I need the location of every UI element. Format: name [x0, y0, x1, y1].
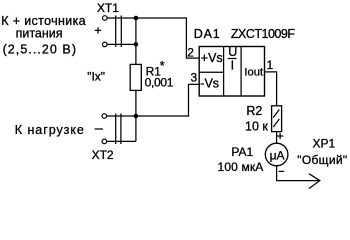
terminal XT2 pin a (circle) — [102, 114, 107, 119]
svg-text:PA1: PA1 — [231, 145, 253, 159]
wire DA1 pin 1 to R2 — [265, 72, 277, 106]
connector XT2 contact bars — [116, 114, 121, 145]
svg-text:μА: μА — [270, 148, 285, 162]
plug XP1 arrow — [309, 174, 320, 189]
connector XT1 contact bars — [116, 16, 122, 48]
wire R2 to PA1 — [276, 132, 278, 144]
wire PA1 to plug XP1 — [277, 166, 319, 181]
wire: top feed to DA1 pin 2 — [136, 18, 199, 58]
svg-text:*: * — [160, 59, 165, 73]
svg-text:U: U — [228, 45, 237, 59]
wire XT1 bottom pin to node — [107, 43, 136, 45]
IC DA1 body — [199, 47, 264, 97]
wire XT2 top pin — [107, 115, 136, 117]
resistor R1 — [130, 64, 141, 90]
terminal XT1 pin b (circle) — [103, 42, 108, 47]
svg-text:питания: питания — [16, 26, 63, 40]
resistor R2 — [272, 106, 282, 132]
wire: node vertical down to R1 — [135, 18, 137, 64]
svg-text:"Общий": "Общий" — [297, 153, 347, 167]
svg-text:1: 1 — [267, 58, 274, 72]
terminal XT2 pin b (circle) — [102, 139, 107, 144]
polarity + at XT1 — [95, 27, 101, 33]
polarity − at XT2 — [95, 128, 103, 130]
svg-text:10 к: 10 к — [245, 120, 268, 134]
svg-text:"Iх": "Iх" — [87, 69, 105, 83]
svg-text:DA1: DA1 — [194, 27, 221, 41]
wire DA1 pin 3 to node — [136, 84, 199, 116]
terminal XT1 pin a (circle) — [103, 16, 108, 21]
svg-text:К нагрузке: К нагрузке — [15, 123, 85, 137]
svg-text:(2,5...20 В): (2,5...20 В) — [3, 42, 77, 56]
svg-text:XT1: XT1 — [97, 1, 119, 15]
svg-text:R2: R2 — [246, 104, 262, 118]
label: К + источника питания (2,5...20 В) — [1, 14, 86, 56]
symbol U/I — [228, 45, 238, 73]
wire XT1 top pin to node — [107, 17, 136, 19]
svg-text:2: 2 — [187, 45, 194, 59]
node: XT1 top junction dot — [134, 16, 139, 21]
wire: R1 bottom to XT2 node and down to XT2 bottom row — [135, 90, 137, 141]
svg-text:Iout: Iout — [244, 66, 264, 78]
svg-text:XT2: XT2 — [92, 148, 114, 162]
wire XT2 bottom pin — [107, 140, 136, 142]
meter PA1 — [265, 143, 288, 166]
svg-text:3: 3 — [191, 71, 198, 85]
svg-text:0,001: 0,001 — [145, 76, 174, 90]
svg-text:ZXCT1009F: ZXCT1009F — [231, 27, 295, 41]
svg-text:+Vs: +Vs — [201, 51, 223, 65]
node: XT1 bottom junction dot — [134, 42, 139, 47]
svg-text:-Vs: -Vs — [200, 77, 219, 91]
svg-text:100 мкА: 100 мкА — [218, 160, 264, 174]
svg-text:I: I — [231, 59, 234, 73]
svg-text:XP1: XP1 — [313, 137, 336, 151]
polarity − at PA1 — [279, 170, 285, 172]
node: XT2 junction dot — [134, 114, 139, 119]
polarity + at PA1 — [277, 133, 283, 139]
